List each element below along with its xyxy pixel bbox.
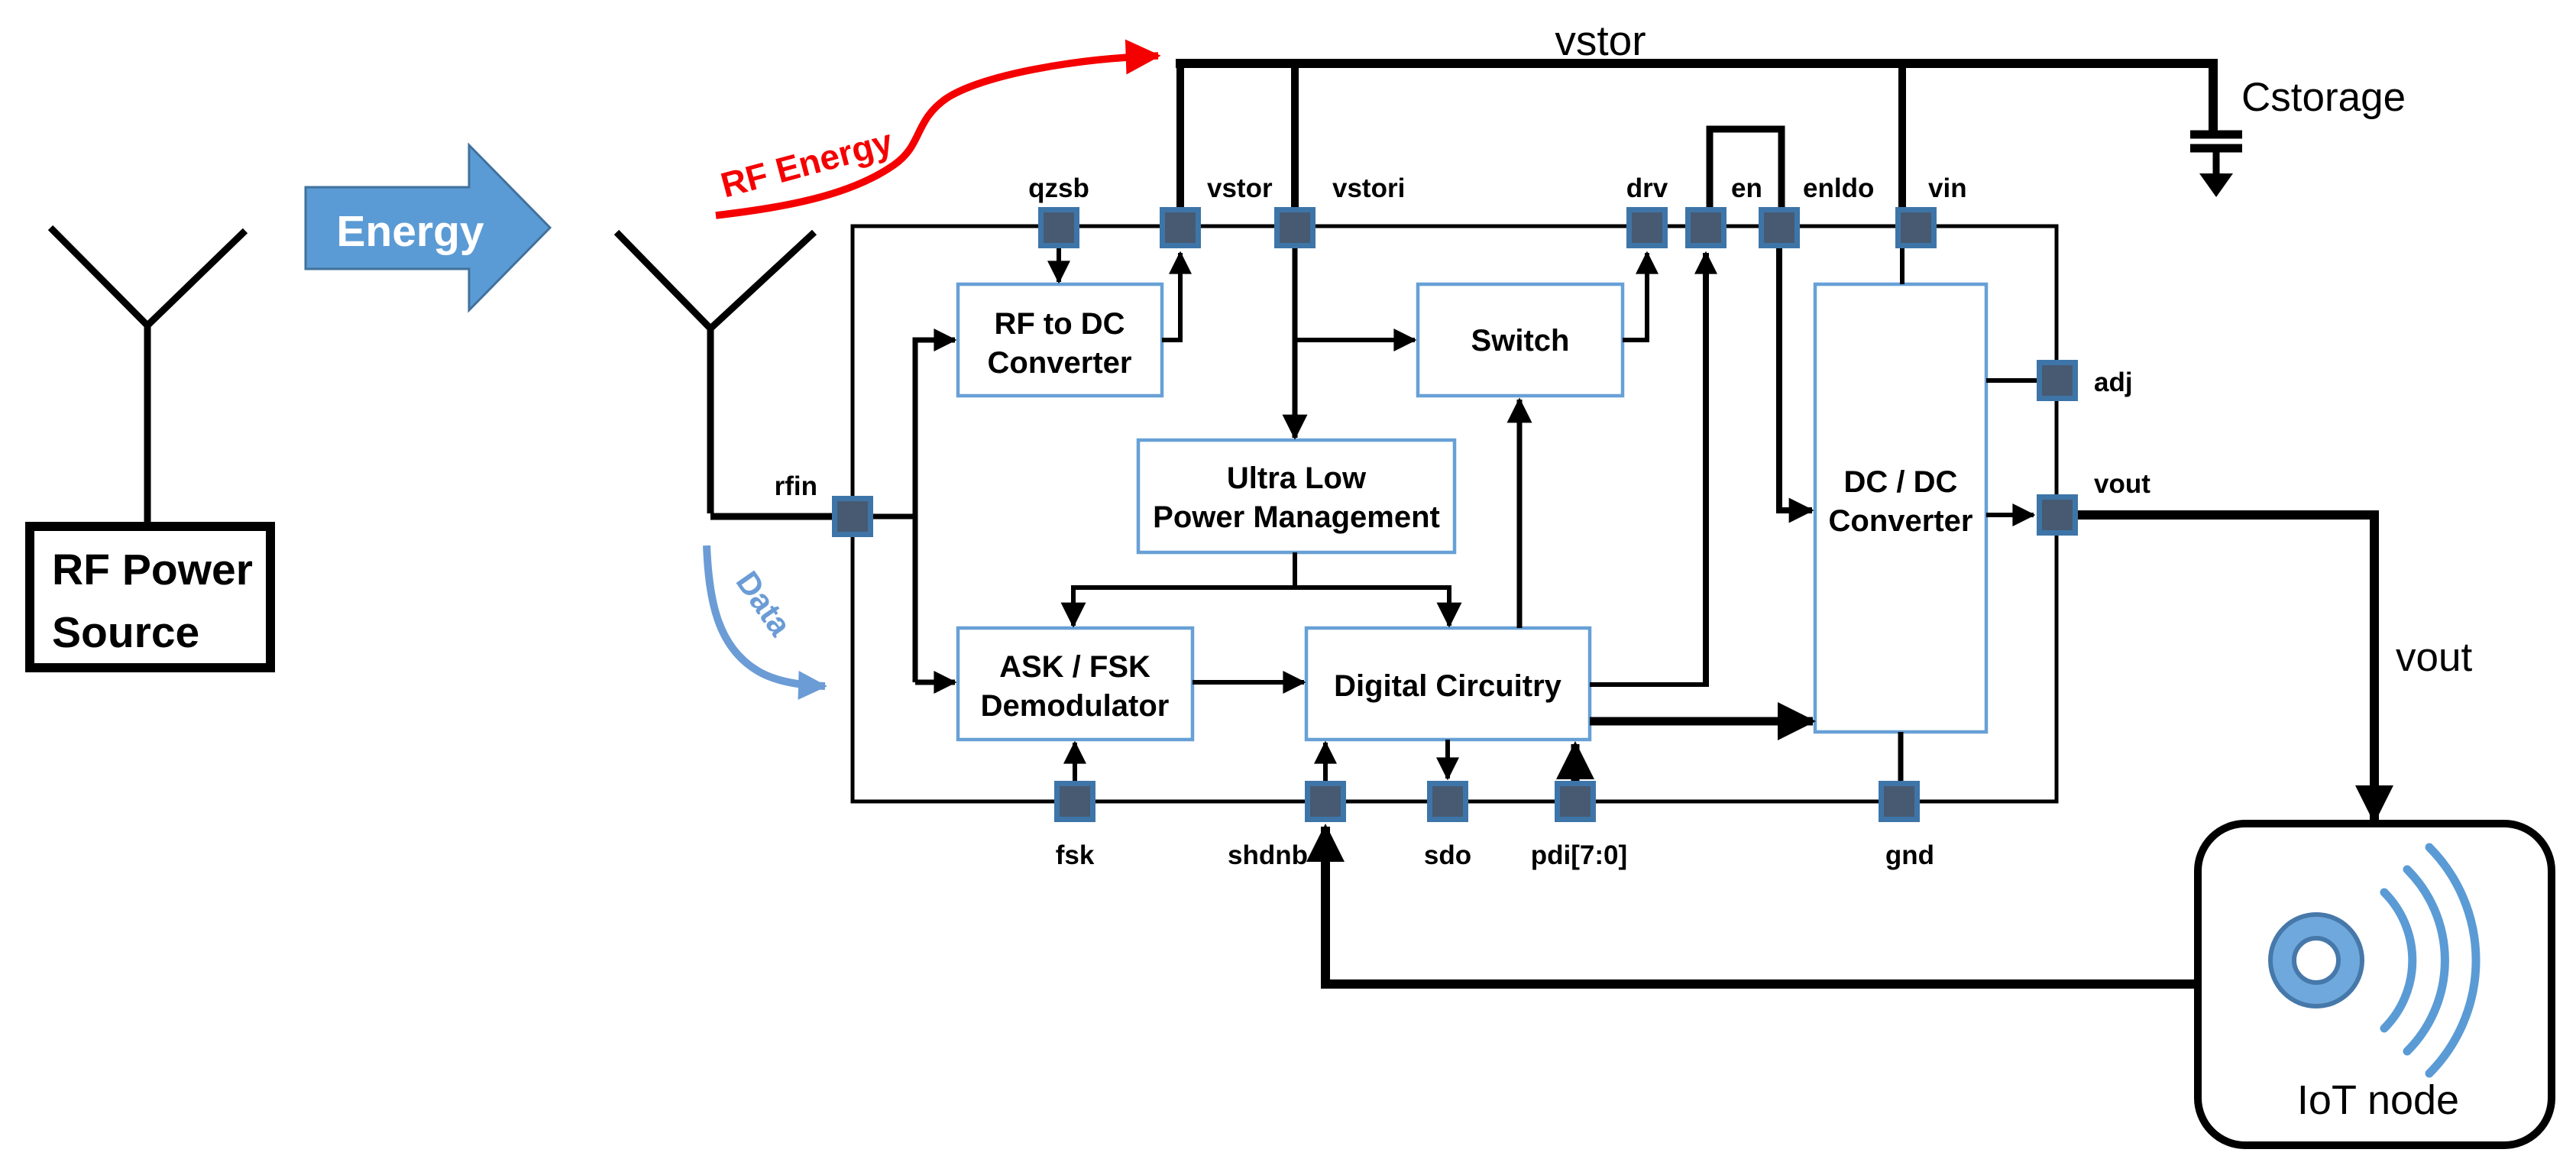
wire enldo to DC/DC arrow xyxy=(1779,248,1812,510)
svg-text:IoT node: IoT node xyxy=(2297,1077,2459,1123)
ASK / FSK Demodulator block xyxy=(958,628,1193,740)
wire Digital to Switch arrow xyxy=(1517,400,1523,628)
pin adj xyxy=(2037,360,2078,401)
wire branch line xyxy=(1071,585,1449,590)
arrow DC/DC to vout pin xyxy=(1986,513,2034,517)
svg-text:Power Management: Power Management xyxy=(1153,500,1440,534)
Switch block xyxy=(1418,284,1623,396)
wire DC/DC to adj pin xyxy=(1986,378,2037,383)
antenna ANT2 (receiver antenna) xyxy=(616,232,814,513)
ground arrow below Cstorage xyxy=(2199,173,2233,197)
wire vstor top rail xyxy=(1176,59,2218,68)
arrow fsk to ASK/FSK xyxy=(1073,743,1077,781)
thick wire vout to IoT node xyxy=(2078,515,2374,821)
pin enldo xyxy=(1759,207,1800,248)
wire qzsb to RF-DC arrow xyxy=(1057,248,1061,282)
svg-text:sdo: sdo xyxy=(1424,840,1471,870)
svg-text:RF Energy: RF Energy xyxy=(717,121,897,206)
pin gnd xyxy=(1879,781,1920,822)
svg-text:vin: vin xyxy=(1928,173,1967,203)
wire riser rail to vstor pin xyxy=(1176,59,1184,207)
svg-text:vout: vout xyxy=(2094,469,2150,499)
wire vin to DC/DC xyxy=(1900,248,1904,284)
svg-text:Source: Source xyxy=(52,608,199,657)
svg-text:Switch: Switch xyxy=(1471,324,1570,358)
arrow rfin to RF-DC xyxy=(929,338,955,343)
RF Power Source box xyxy=(30,526,270,668)
svg-text:DC / DC: DC / DC xyxy=(1844,465,1958,499)
svg-text:Converter: Converter xyxy=(1829,504,1973,538)
svg-text:Digital Circuitry: Digital Circuitry xyxy=(1334,669,1562,703)
pin rfin xyxy=(832,496,873,537)
pin pdi[7:0] xyxy=(1555,781,1596,822)
arrow Digital to sdo pin xyxy=(1445,740,1450,779)
IoT node icon arcs xyxy=(2384,892,2413,1028)
RF to DC Converter U1 xyxy=(958,284,1162,396)
arrow branch to Digital xyxy=(1447,585,1451,626)
thick arrow Digital to DC/DC xyxy=(1590,717,1813,726)
wire ULP down to branch xyxy=(1293,552,1297,588)
pin sdo xyxy=(1427,781,1468,822)
thick arrow pdi to Digital xyxy=(1571,744,1580,781)
svg-text:Energy: Energy xyxy=(336,207,484,256)
svg-text:vstor: vstor xyxy=(1207,173,1273,203)
pin vstor xyxy=(1160,207,1201,248)
svg-text:gnd: gnd xyxy=(1885,840,1934,870)
svg-text:RF to DC: RF to DC xyxy=(994,307,1125,341)
IoT node icon circle xyxy=(2270,915,2362,1006)
capacitor Cstorage xyxy=(2190,134,2242,148)
wire vstori tap to Switch arrow xyxy=(1295,338,1415,342)
wire riser rail to vin pin xyxy=(1898,68,1906,207)
antenna ANT1 (RF power source antenna) xyxy=(50,228,245,522)
svg-text:enldo: enldo xyxy=(1803,173,1874,203)
wire rfin branch xyxy=(873,340,952,682)
svg-text:vstor: vstor xyxy=(1555,17,1646,64)
wire Switch to drv pin arrow xyxy=(1623,253,1647,340)
pin vout xyxy=(2037,494,2078,536)
Energy arrow xyxy=(306,145,550,310)
svg-text:Demodulator: Demodulator xyxy=(981,689,1170,723)
pin drv xyxy=(1626,207,1668,248)
arrow ASK/FSK to Digital xyxy=(1193,680,1304,685)
pin vin xyxy=(1895,207,1937,248)
Ultra Low Power Management block xyxy=(1138,440,1455,552)
svg-text:Cstorage: Cstorage xyxy=(2241,75,2406,120)
svg-text:Converter: Converter xyxy=(988,346,1132,380)
arrow branch to ASK/FSK xyxy=(1071,585,1076,626)
Digital Circuitry block xyxy=(1306,628,1590,740)
wire riser rail to vstori pin xyxy=(1291,68,1299,207)
wire vstori to ULP arrow xyxy=(1293,248,1298,438)
pin shdnb xyxy=(1305,781,1346,822)
RF Energy red arrow xyxy=(716,56,1158,215)
svg-text:shdnb: shdnb xyxy=(1228,840,1308,870)
svg-text:ASK / FSK: ASK / FSK xyxy=(999,650,1150,684)
wire Digital to en pin arrow xyxy=(1590,682,1706,687)
svg-text:rfin: rfin xyxy=(775,471,817,501)
pin vstori xyxy=(1274,207,1316,248)
svg-text:vout: vout xyxy=(2396,635,2472,680)
wire RF-DC to vstor pin arrow xyxy=(1162,253,1180,340)
svg-text:qzsb: qzsb xyxy=(1028,173,1089,203)
arrow shdnb to Digital xyxy=(1323,743,1328,781)
en-enldo loop wire xyxy=(1710,129,1782,208)
wire antenna to rfin xyxy=(710,513,834,520)
svg-text:vstori: vstori xyxy=(1332,173,1405,203)
svg-text:RF Power: RF Power xyxy=(52,546,253,594)
svg-text:Ultra Low: Ultra Low xyxy=(1227,461,1367,495)
svg-text:drv: drv xyxy=(1626,173,1668,203)
thick wire IoT node to shdnb xyxy=(1325,827,2199,984)
svg-text:en: en xyxy=(1731,173,1762,203)
svg-text:pdi[7:0]: pdi[7:0] xyxy=(1531,840,1627,870)
pin qzsb xyxy=(1038,207,1079,248)
pin fsk xyxy=(1054,781,1095,822)
IoT node box xyxy=(2198,824,2552,1145)
svg-text:fsk: fsk xyxy=(1056,840,1095,870)
DC / DC Converter block xyxy=(1815,284,1986,732)
Data blue arrow xyxy=(707,546,825,686)
pin en xyxy=(1685,207,1727,248)
svg-text:Data: Data xyxy=(730,565,799,643)
wire rail to Cstorage xyxy=(2209,59,2218,131)
chip outline xyxy=(853,226,2057,801)
arrow rfin to ASK/FSK xyxy=(915,680,955,685)
svg-text:adj: adj xyxy=(2094,367,2133,397)
wire DC/DC to gnd pin xyxy=(1898,732,1904,781)
